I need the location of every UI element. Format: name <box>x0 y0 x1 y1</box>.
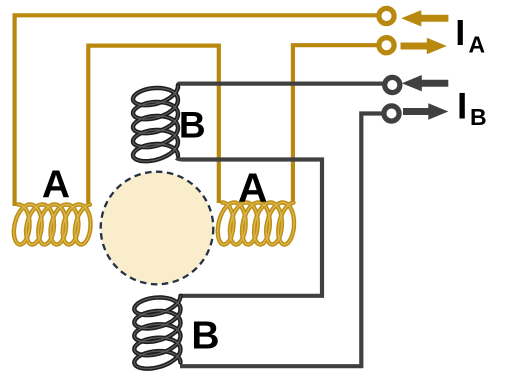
arrow IA in <box>401 10 448 26</box>
wire phase-A lead2 <box>293 45 378 203</box>
svg-text:I: I <box>457 85 467 126</box>
wire phase-A link <box>88 46 219 206</box>
label A right <box>238 165 268 211</box>
terminal 1 <box>379 8 394 23</box>
svg-text:B: B <box>470 104 487 130</box>
svg-text:B: B <box>179 104 206 145</box>
inductor A right <box>218 203 294 245</box>
arrow IB out <box>403 103 448 119</box>
label IB <box>457 85 487 130</box>
inductor B top <box>133 86 178 161</box>
arrow IB in <box>402 75 449 91</box>
wire phase-A lead1 <box>15 15 378 206</box>
svg-text:A: A <box>238 165 268 211</box>
wire phase-B lead2 <box>180 114 383 367</box>
arrow IA out <box>401 38 447 54</box>
label A left <box>42 163 70 206</box>
rotor <box>101 172 214 285</box>
wire phase-B lead1 <box>178 84 384 89</box>
inductor A left <box>14 205 91 245</box>
svg-text:I: I <box>455 12 465 53</box>
terminal 4 <box>384 106 399 121</box>
wire phase-B link <box>176 158 322 296</box>
terminal 3 <box>385 77 400 92</box>
svg-text:A: A <box>42 163 70 206</box>
label B bottom <box>191 315 219 358</box>
svg-text:B: B <box>191 315 219 358</box>
label B top <box>179 104 206 145</box>
inductor B bottom <box>134 296 180 369</box>
terminal 2 <box>379 38 394 53</box>
svg-text:A: A <box>469 32 486 58</box>
label IA <box>455 12 485 58</box>
